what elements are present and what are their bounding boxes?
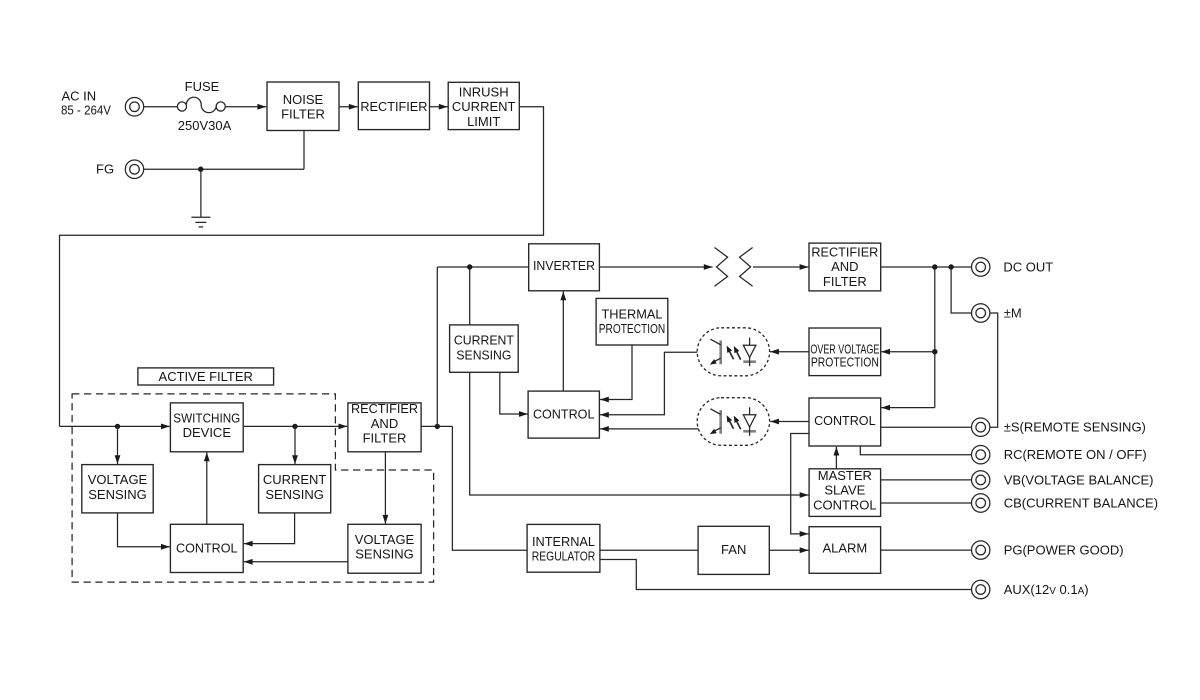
- svg-text:CONTROL: CONTROL: [813, 497, 877, 512]
- block RECTIFIER AND FILTER AF: [348, 401, 421, 452]
- wire switching device to rectifier and filter (arrow): [243, 425, 347, 427]
- block FAN: [698, 526, 769, 574]
- wire inrush output loop to active filter input: [60, 107, 544, 427]
- svg-text:FILTER: FILTER: [363, 431, 407, 446]
- terminal FG: [125, 160, 143, 178]
- wire control to switching device (arrow): [206, 452, 208, 524]
- wire current sensing to control (arrow): [244, 513, 295, 544]
- terminal AC IN: [125, 98, 143, 116]
- wire voltage sensing 2 to control (arrow): [244, 561, 348, 563]
- svg-text:THERMAL: THERMAL: [602, 307, 663, 322]
- svg-text:INRUSH: INRUSH: [459, 84, 509, 99]
- svg-text:AND: AND: [371, 416, 398, 431]
- svg-text:CURRENT: CURRENT: [263, 472, 327, 487]
- svg-text:VOLTAGE: VOLTAGE: [355, 532, 415, 547]
- svg-text:SENSING: SENSING: [265, 487, 324, 502]
- block RECTIFIER: [358, 82, 429, 130]
- wire control right to optocoupler 2 (arrow): [770, 421, 809, 423]
- wire input to switching device (arrow): [60, 425, 170, 427]
- block ALARM: [809, 527, 881, 574]
- block CONTROL right: [809, 398, 881, 446]
- wire FG to noise filter: [143, 131, 304, 170]
- svg-text:FILTER: FILTER: [823, 274, 867, 289]
- wire AC IN terminal to fuse: [143, 106, 177, 108]
- block INRUSH CURRENT LIMIT: [448, 82, 519, 129]
- svg-text:AND: AND: [831, 259, 858, 274]
- label AUX 12V 0.1A: [1004, 582, 1089, 597]
- wire optocoupler 2 to control main (arrow): [600, 428, 698, 430]
- wire control right to S terminal: [881, 426, 972, 428]
- junction node AF output: [435, 424, 440, 429]
- wire tap down to voltage sensing (arrow): [117, 426, 119, 464]
- block INVERTER: [529, 244, 600, 291]
- label 250V30A: [178, 118, 232, 133]
- wire internal regulator to AUX terminal: [600, 560, 972, 590]
- label PG POWER GOOD: [1004, 543, 1124, 558]
- wire rectifier and filter to DC OUT: [881, 266, 972, 268]
- svg-text:250V30A: 250V30A: [178, 118, 232, 133]
- junction node OVP tap: [932, 349, 937, 354]
- svg-text:±S(REMOTE SENSING): ±S(REMOTE SENSING): [1004, 420, 1146, 435]
- svg-text:SENSING: SENSING: [456, 348, 511, 363]
- wire master slave control to VB terminal: [881, 479, 972, 481]
- svg-text:DC OUT: DC OUT: [1003, 260, 1053, 275]
- svg-text:SENSING: SENSING: [88, 487, 147, 502]
- svg-text:FILTER: FILTER: [281, 107, 325, 122]
- block INTERNAL REGULATOR: [527, 524, 600, 572]
- svg-text:PROTECTION: PROTECTION: [599, 321, 666, 336]
- svg-text:CURRENT: CURRENT: [454, 333, 514, 348]
- svg-text:RECTIFIER: RECTIFIER: [351, 401, 418, 416]
- svg-text:±M: ±M: [1004, 306, 1022, 321]
- junction node voltage sensing tap: [115, 424, 120, 429]
- wire internal regulator to fan: [600, 549, 698, 551]
- wire tap down to current sensing top: [469, 267, 471, 325]
- wire master slave control up to control right (arrow): [835, 447, 837, 469]
- wire rectifier to inrush limit (arrow): [430, 106, 448, 108]
- terminal PG: [972, 541, 990, 559]
- svg-text:85 - 264V: 85 - 264V: [61, 102, 111, 117]
- label box ACTIVE FILTER: [138, 368, 274, 385]
- optocoupler PC2: [697, 398, 769, 446]
- svg-text:REGULATOR: REGULATOR: [532, 549, 596, 564]
- ground: [191, 217, 210, 227]
- wire AF output down to internal regulator: [452, 426, 527, 550]
- terminal M: [972, 304, 990, 322]
- wire voltage sensing to control (arrow): [118, 513, 170, 547]
- block CONTROL main: [528, 391, 599, 438]
- svg-text:LIMIT: LIMIT: [467, 114, 500, 129]
- terminal DC OUT: [972, 258, 990, 276]
- svg-text:CB(CURRENT BALANCE): CB(CURRENT BALANCE): [1004, 496, 1158, 511]
- junction FG ground node: [198, 167, 203, 172]
- dashed boundary active filter: [72, 394, 434, 582]
- block VOLTAGE SENSING AF2: [348, 524, 421, 573]
- block RECTIFIER AND FILTER main: [809, 243, 881, 291]
- wire sense tap down: [934, 267, 936, 408]
- wire tap to over voltage protection (arrow): [881, 351, 935, 353]
- wire master slave control to CB terminal: [881, 502, 972, 504]
- label S REMOTE SENSING: [1004, 420, 1146, 435]
- wire fan to alarm (arrow): [769, 549, 808, 551]
- block VOLTAGE SENSING AF1: [82, 465, 153, 513]
- wire M tap to M terminal: [951, 267, 972, 313]
- junction node inverter feed tap: [467, 264, 472, 269]
- wire transformer to rectifier and filter (arrow): [753, 266, 808, 268]
- svg-text:SLAVE: SLAVE: [824, 483, 865, 498]
- wire over voltage protection to optocoupler 1 (arrow): [770, 351, 809, 353]
- block MASTER SLAVE CONTROL: [809, 468, 881, 516]
- svg-text:RC(REMOTE ON / OFF): RC(REMOTE ON / OFF): [1004, 447, 1147, 462]
- wire inverter to transformer (arrow): [599, 266, 712, 268]
- label AC IN 85-264V: [61, 88, 111, 117]
- label VB VOLTAGE BALANCE: [1004, 472, 1154, 487]
- wire optocoupler 1 to control main (arrow): [600, 352, 697, 415]
- label CB CURRENT BALANCE: [1004, 496, 1158, 511]
- terminal AUX: [972, 580, 990, 598]
- terminal S: [972, 418, 990, 436]
- svg-text:AUX(12V 0.1A): AUX(12V 0.1A): [1004, 582, 1089, 597]
- label RC REMOTE ON OFF: [1004, 447, 1147, 462]
- wire current sensing to control main (arrow): [500, 372, 528, 414]
- block SWITCHING DEVICE: [170, 403, 243, 452]
- label M: [1004, 306, 1022, 321]
- svg-text:MASTER: MASTER: [818, 468, 872, 483]
- block OVER VOLTAGE PROTECTION: [809, 328, 881, 376]
- wire current sensing to master slave control (arrow): [470, 372, 809, 495]
- svg-text:FUSE: FUSE: [185, 79, 220, 94]
- svg-text:SWITCHING: SWITCHING: [173, 410, 240, 425]
- svg-text:FG: FG: [96, 162, 114, 177]
- svg-text:ACTIVE FILTER: ACTIVE FILTER: [159, 369, 253, 384]
- label FUSE: [185, 79, 220, 94]
- svg-text:FAN: FAN: [721, 542, 746, 557]
- svg-text:CONTROL: CONTROL: [176, 541, 238, 556]
- terminal RC: [972, 446, 990, 464]
- svg-text:INVERTER: INVERTER: [533, 258, 595, 273]
- svg-text:VB(VOLTAGE BALANCE): VB(VOLTAGE BALANCE): [1004, 472, 1154, 487]
- block CURRENT SENSING AF: [259, 465, 331, 513]
- svg-text:RECTIFIER: RECTIFIER: [811, 244, 878, 259]
- junction node sense tap: [932, 264, 937, 269]
- label FG: [96, 162, 114, 177]
- junction node M tap: [948, 264, 953, 269]
- terminal CB: [972, 494, 990, 512]
- block CURRENT SENSING main: [450, 325, 519, 372]
- svg-text:AC IN: AC IN: [62, 88, 97, 103]
- svg-text:ALARM: ALARM: [822, 541, 867, 556]
- junction node current sensing tap: [292, 424, 297, 429]
- wire thermal protection to control main (arrow): [600, 345, 632, 400]
- fuse F1 250V30A: [177, 97, 225, 112]
- svg-text:NOISE: NOISE: [283, 92, 324, 107]
- svg-text:RECTIFIER: RECTIFIER: [360, 99, 427, 114]
- svg-text:CONTROL: CONTROL: [814, 413, 876, 428]
- wire tap to control right (arrow): [881, 407, 935, 409]
- svg-text:INTERNAL: INTERNAL: [532, 534, 595, 549]
- wire control main up to inverter (arrow): [562, 292, 564, 392]
- transformer T1: [715, 248, 753, 287]
- wire fuse to noise filter (arrow): [225, 106, 266, 108]
- wire ground stem: [200, 169, 202, 217]
- block THERMAL PROTECTION: [596, 298, 668, 345]
- wire noise filter to rectifier (arrow): [339, 106, 358, 108]
- block CONTROL AF: [170, 524, 243, 572]
- wire control right to RC terminal: [860, 446, 972, 455]
- wire tap down to current sensing (arrow): [294, 426, 296, 464]
- wire AF output up to inverter feed: [436, 267, 438, 426]
- wire inverter feed: [437, 266, 528, 268]
- svg-text:PROTECTION: PROTECTION: [811, 355, 879, 370]
- svg-text:SENSING: SENSING: [355, 547, 414, 562]
- svg-text:DEVICE: DEVICE: [183, 425, 232, 440]
- wire alarm to PG terminal: [881, 549, 972, 551]
- optocoupler PC1: [697, 328, 769, 376]
- wire control right to alarm (arrow): [791, 434, 809, 534]
- wire rectifier and filter output: [421, 425, 452, 427]
- wire rectifier and filter down to voltage sensing 2 (arrow): [384, 452, 386, 524]
- svg-text:PG(POWER GOOD): PG(POWER GOOD): [1004, 543, 1124, 558]
- svg-text:VOLTAGE: VOLTAGE: [88, 472, 148, 487]
- svg-text:CURRENT: CURRENT: [452, 99, 516, 114]
- terminal VB: [972, 471, 990, 489]
- svg-text:CONTROL: CONTROL: [533, 407, 595, 422]
- block NOISE FILTER: [267, 82, 339, 131]
- wire M to S jumper: [990, 313, 998, 427]
- label DC OUT: [1003, 260, 1053, 275]
